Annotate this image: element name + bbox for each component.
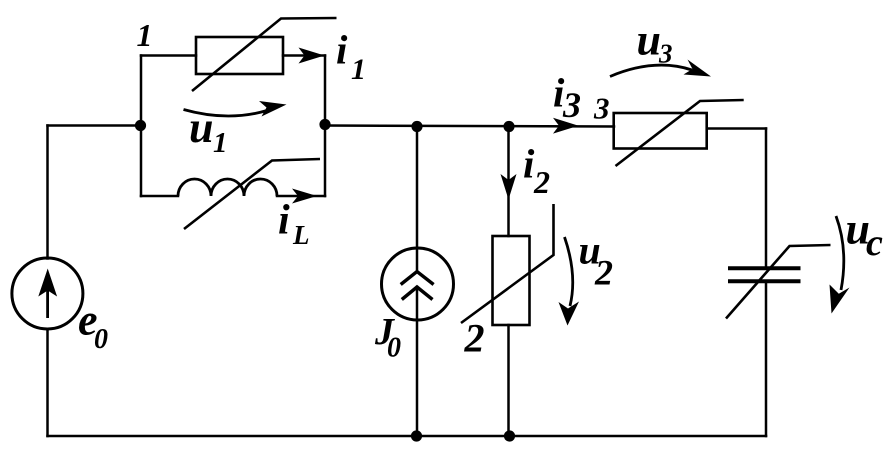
wire into resistor 1 xyxy=(141,54,196,57)
label i2 xyxy=(523,141,550,201)
wire left side down to inductor xyxy=(140,126,143,197)
label u1 xyxy=(189,103,228,159)
node dot right of parallel loop xyxy=(319,119,330,130)
nonlinear resistor 3 body xyxy=(614,113,707,149)
inductor L variability stroke xyxy=(184,159,320,229)
label iL xyxy=(278,198,310,251)
source e0 circle xyxy=(12,258,83,329)
svg-text:u: u xyxy=(637,16,661,65)
svg-text:0: 0 xyxy=(94,324,108,355)
node dot resistor2 bottom xyxy=(504,430,515,441)
current source J0 chevron 2 xyxy=(402,287,433,300)
label J0 xyxy=(374,311,401,364)
label e0 xyxy=(78,296,108,356)
nonlinear resistor 2 variability stroke xyxy=(461,204,554,323)
wire left vertical lower (e0 bottom lead) xyxy=(46,329,49,436)
arrow i3 xyxy=(553,118,579,134)
nonlinear resistor 1 body xyxy=(196,37,283,74)
nonlinear capacitor C top plate xyxy=(728,266,801,270)
wire top-left horizontal from source e0 to node 1 xyxy=(48,124,142,127)
nonlinear resistor 3 variability stroke xyxy=(616,100,744,166)
wire left vertical upper (e0 top lead) xyxy=(46,126,49,259)
svg-text:L: L xyxy=(292,220,310,250)
svg-text:1: 1 xyxy=(137,17,153,53)
wire resistor 2 top lead xyxy=(507,126,510,236)
wire bottom bus xyxy=(48,435,767,438)
node dot resistor2 top xyxy=(503,121,514,132)
svg-text:2: 2 xyxy=(594,253,613,293)
wire out of resistor 3 xyxy=(707,127,766,130)
voltage arrow u2 xyxy=(565,237,573,306)
arrow iL xyxy=(292,189,317,204)
wire right vertical to capacitor xyxy=(765,129,768,267)
svg-text:2: 2 xyxy=(533,164,550,200)
arrow i1 xyxy=(299,48,325,64)
wire J0 bottom lead xyxy=(416,287,419,436)
nonlinear resistor 2 body xyxy=(493,236,530,325)
svg-text:3: 3 xyxy=(593,91,610,126)
svg-text:i: i xyxy=(278,198,290,244)
svg-text:1: 1 xyxy=(351,53,366,86)
wire out of inductor xyxy=(277,195,325,198)
node dot J0 top xyxy=(411,121,422,132)
wire capacitor bottom lead xyxy=(765,283,768,436)
svg-text:i: i xyxy=(336,27,348,73)
label u2 xyxy=(579,228,614,293)
wire J0 top lead xyxy=(416,126,419,272)
nonlinear resistor 1 variability stroke xyxy=(192,18,337,91)
wire into inductor xyxy=(141,195,178,198)
wire right side of parallel loop xyxy=(324,56,327,197)
svg-text:c: c xyxy=(866,222,883,264)
voltage arrow u3 xyxy=(610,65,692,76)
inductor L coil xyxy=(178,179,277,196)
svg-text:0: 0 xyxy=(387,333,401,364)
current source J0 chevron 1 xyxy=(401,272,434,285)
svg-text:1: 1 xyxy=(213,127,228,159)
label i3 xyxy=(553,70,581,126)
wire out of resistor 1 xyxy=(283,54,325,57)
arrow i2 xyxy=(501,174,517,200)
source e0 arrow xyxy=(38,269,57,319)
voltage arrow u1 xyxy=(184,110,268,117)
label i1 xyxy=(336,27,366,87)
svg-text:3: 3 xyxy=(562,85,581,125)
nonlinear capacitor C bottom plate xyxy=(728,279,801,283)
nonlinear capacitor C variability stroke xyxy=(726,245,831,319)
current source J0 circle xyxy=(382,248,454,320)
label uc xyxy=(846,205,884,265)
label u3 xyxy=(637,16,673,69)
svg-text:3: 3 xyxy=(658,39,673,69)
wire node1 vertical stub xyxy=(140,56,143,126)
node dot J0 bottom xyxy=(411,430,422,441)
voltage arrow uc xyxy=(836,216,844,290)
svg-text:2: 2 xyxy=(464,316,485,361)
svg-text:u: u xyxy=(189,103,213,152)
wire main horizontal bus node1..node3 xyxy=(325,126,614,127)
wire resistor 2 bottom lead xyxy=(507,325,510,436)
node dot at node 1 xyxy=(135,120,146,131)
